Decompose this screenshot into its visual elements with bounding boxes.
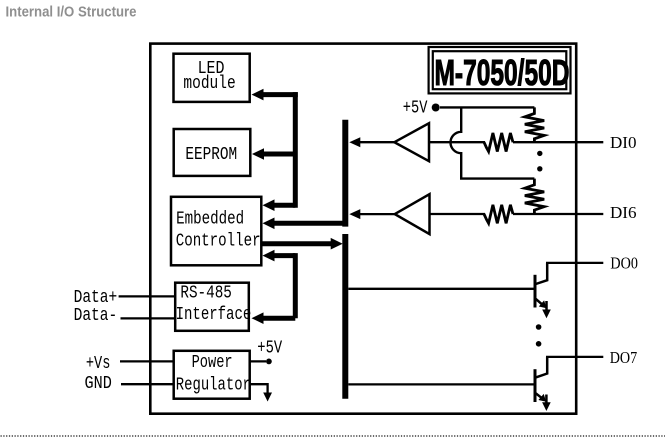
wire DI6 line right segment [513,213,603,215]
outer module box [150,44,576,414]
transistor Q2 emitter [536,393,542,398]
svg-text:Data-: Data- [74,306,118,326]
svg-text:Embedded: Embedded [176,210,244,230]
wire +5V drop with hop over DI0 line [451,107,535,178]
wire DI6 line left segment [430,213,486,215]
transistor Q1 base wire [348,288,534,290]
wire bus to EEPROM [263,152,296,157]
resistor R3 series DI0 [484,133,513,152]
wire DO7 line [546,356,603,358]
DI bus bar (upper) [342,120,348,227]
wire Embedded Controller to DO bus bar [263,241,333,246]
buffer U1 DI0 [394,123,429,161]
thick bus: controller to LED/EEPROM vertical [293,92,298,208]
arrowhead into LED module [252,89,264,101]
svg-text:Interface: Interface [176,305,252,325]
wire bus to Embedded Controller bottom [273,253,296,258]
arrowhead Q2 down [542,402,551,411]
wire DI0 line left segment [429,141,485,143]
svg-text:Power: Power [192,353,233,373]
resistor R4 series DI6 [484,205,513,224]
transistor Q1 collector [536,263,547,284]
wire +Vs [120,360,174,362]
DO bus bar (lower) [342,234,348,399]
arrowhead ground down [263,393,272,402]
svg-text:DI6: DI6 [610,203,637,222]
svg-text:GND: GND [85,374,112,394]
svg-text:Internal I/O Structure: Internal I/O Structure [6,5,137,21]
arrowhead Q1 down [542,310,551,319]
title box inner [433,51,567,89]
wire bus to RS-485 Interface [262,316,296,321]
wire GND [121,383,174,385]
wire bus to Embedded Controller top [273,203,296,208]
wire +5V rail [440,106,534,108]
svg-text:M-7050/50D: M-7050/50D [435,52,570,93]
arrowhead into RS-485 Interface [252,312,264,324]
svg-text:Controller: Controller [176,232,261,252]
arrowhead into Embedded Controller (from DI bus) [263,218,275,230]
svg-text:+5V: +5V [257,338,282,358]
wire Q1 emitter down arrow [545,301,548,311]
resistor R1 pullup DI0 [525,107,544,142]
wire DI bus bar to Embedded Controller [273,221,343,226]
svg-text:DO7: DO7 [610,348,638,367]
block RS-485 Interface [175,283,249,331]
wire power regulator ground branch [250,384,268,393]
svg-text:Data+: Data+ [74,288,118,308]
wire U2 output to bus [359,213,394,215]
svg-text:DI0: DI0 [610,133,637,152]
thick bus: controller to RS-485 vertical [293,253,298,318]
ellipsis dots between DO channels [536,324,542,330]
block EEPROM [174,129,251,176]
transistor Q1 emitter [536,299,542,304]
wire DO0 line [546,262,603,264]
block LED module [174,54,250,102]
arrowhead into EEPROM [252,148,264,160]
node +5V dot at regulator [266,359,272,365]
svg-text:Regulator: Regulator [176,375,251,395]
transistor Q2 base bar [534,369,537,402]
arrowhead Q2 emitter [538,394,546,402]
arrowhead into Embedded Controller (from RS-485) [263,250,275,262]
arrowhead into Embedded Controller (from LED bus) [263,199,275,211]
transistor Q2 base wire [348,383,534,385]
wire Data- [121,317,177,319]
ellipsis dots between DI channels [537,151,542,156]
arrowhead U1 into DI bus bar [349,137,360,147]
transistor Q2 collector [536,357,547,378]
resistor R2 pullup DI6 [525,179,544,214]
arrowhead U2 into DI bus bar [349,209,360,219]
title box outer [429,47,571,93]
svg-text:EEPROM: EEPROM [185,145,237,165]
arrowhead into DO bus bar [331,238,343,250]
node +5V terminal dot [432,104,440,112]
buffer U2 DI6 [395,194,430,234]
wire power regulator +5V output [250,360,266,362]
svg-text:RS-485: RS-485 [180,284,232,304]
svg-text:+5V: +5V [403,98,428,118]
bottom dotted separator [1,435,665,437]
svg-text:DO0: DO0 [610,253,638,272]
wire Q2 emitter down arrow [545,395,548,405]
svg-text:module: module [183,74,235,94]
svg-text:+Vs: +Vs [86,354,111,374]
wire bus to LED module [262,92,298,97]
block Power Regulator [174,351,250,399]
transistor Q1 base bar [534,275,537,308]
block Embedded Controller [171,197,261,265]
wire U1 output to bus [359,141,394,143]
arrowhead Q1 emitter [539,300,547,308]
wire Data+ [119,295,176,297]
wire DI0 line right segment [513,141,603,143]
